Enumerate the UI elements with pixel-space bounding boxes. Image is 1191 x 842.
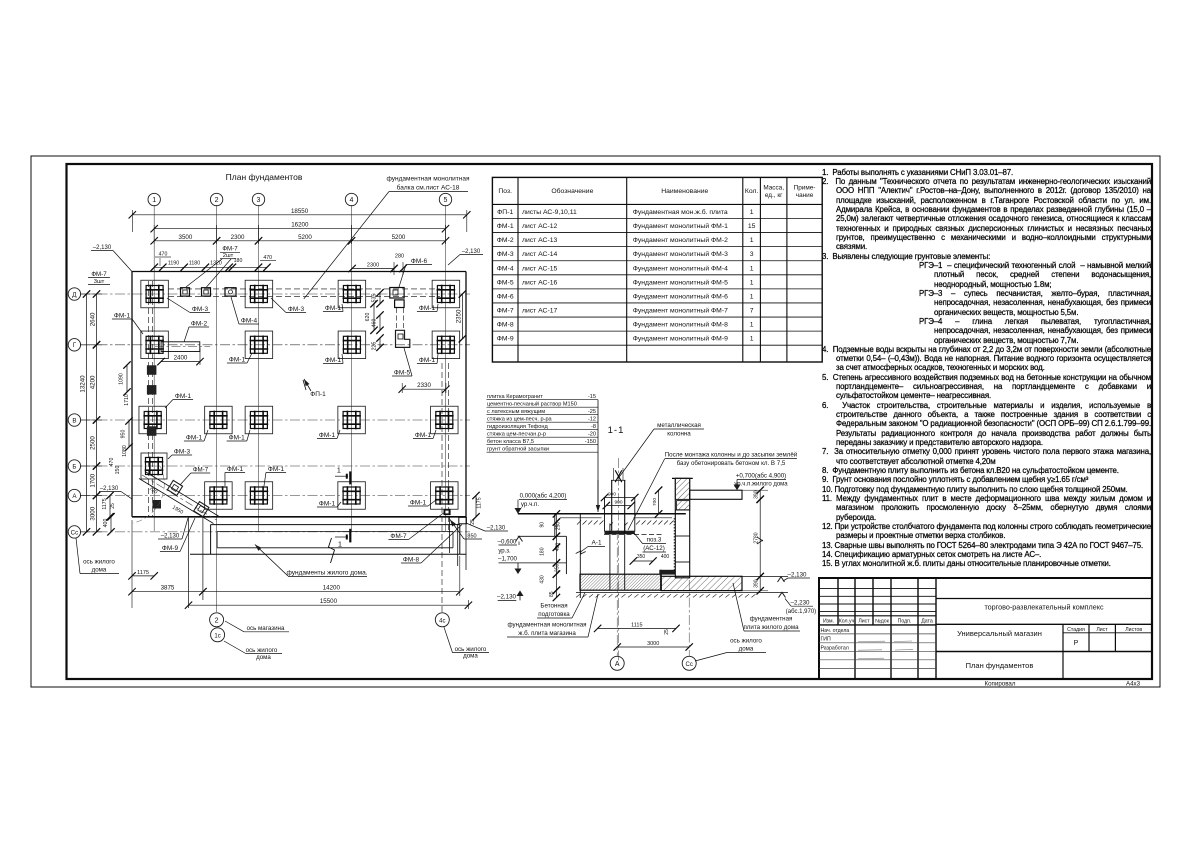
- svg-text:4: 4: [350, 197, 354, 204]
- svg-text:фундаментная: фундаментная: [750, 616, 793, 623]
- svg-text:25: 25: [110, 503, 116, 509]
- svg-text:Фундаментная мон.ж.б. плита: Фундаментная мон.ж.б. плита: [633, 208, 728, 216]
- svg-text:ФМ-3: ФМ-3: [288, 306, 305, 313]
- svg-text:дома: дома: [92, 567, 107, 574]
- svg-text:1175: 1175: [137, 570, 149, 576]
- svg-text:350: 350: [637, 554, 646, 560]
- svg-text:Б: Б: [72, 463, 76, 470]
- svg-text:ед., кг: ед., кг: [765, 192, 783, 199]
- svg-text:Стадия: Стадия: [1067, 627, 1085, 633]
- svg-text:2шт: 2шт: [223, 253, 234, 259]
- svg-text:Д: Д: [72, 291, 77, 298]
- svg-text:1115: 1115: [631, 622, 642, 628]
- svg-text:ФМ-1: ФМ-1: [325, 357, 342, 364]
- svg-text:Разработал: Разработал: [821, 645, 849, 651]
- svg-text:Подп.: Подп.: [898, 618, 912, 624]
- svg-text:ФМ-1: ФМ-1: [415, 432, 432, 439]
- svg-text:390: 390: [754, 579, 760, 588]
- svg-text:620: 620: [365, 313, 371, 322]
- svg-text:А-1: А-1: [591, 540, 602, 547]
- svg-text:ФМ-1: ФМ-1: [227, 466, 244, 473]
- svg-text:225: 225: [372, 342, 378, 351]
- svg-text:460: 460: [372, 319, 378, 328]
- svg-text:стяжка цем-песчан.р-р: стяжка цем-песчан.р-р: [487, 432, 546, 438]
- svg-text:900: 900: [614, 499, 622, 505]
- svg-text:колонна: колонна: [667, 431, 691, 438]
- svg-text:–2,130: –2,130: [497, 593, 516, 600]
- svg-text:лист АС-13: лист АС-13: [522, 237, 557, 244]
- svg-text:(АС-12): (АС-12): [643, 545, 665, 552]
- svg-text:ФМ-9: ФМ-9: [162, 545, 179, 552]
- svg-text:280: 280: [395, 254, 404, 260]
- svg-text:Бетонная: Бетонная: [540, 603, 567, 610]
- svg-text:3000: 3000: [647, 641, 659, 647]
- svg-text:Нач. отдела: Нач. отдела: [821, 628, 850, 634]
- svg-text:2400: 2400: [174, 355, 188, 362]
- svg-text:250: 250: [556, 522, 562, 531]
- svg-text:ФМ-2: ФМ-2: [191, 321, 208, 328]
- svg-text:ФМ-9: ФМ-9: [497, 336, 514, 343]
- svg-text:дома: дома: [256, 654, 271, 661]
- svg-text:Фундамент монолитный ФМ-3: Фундамент монолитный ФМ-3: [633, 250, 728, 258]
- svg-text:Фундамент монолитный ФМ-1: Фундамент монолитный ФМ-1: [633, 222, 728, 230]
- svg-text:ФМ-5: ФМ-5: [497, 279, 514, 286]
- svg-text:1: 1: [152, 197, 156, 204]
- svg-text:гидроизоляция Тефонд: гидроизоляция Тефонд: [487, 424, 548, 430]
- svg-text:грунт обратной засыпки: грунт обратной засыпки: [487, 446, 549, 453]
- svg-text:900: 900: [608, 491, 616, 497]
- svg-text:лист АС-14: лист АС-14: [522, 251, 557, 258]
- svg-text:Изм.: Изм.: [823, 618, 834, 624]
- svg-text:–2,130: –2,130: [462, 249, 481, 255]
- svg-text:ФМ-1: ФМ-1: [114, 313, 131, 320]
- svg-text:ФМ-3: ФМ-3: [497, 251, 514, 258]
- svg-text:чание: чание: [796, 192, 814, 199]
- svg-text:ФМ-1: ФМ-1: [175, 393, 192, 400]
- svg-text:15: 15: [748, 223, 756, 230]
- svg-text:90: 90: [540, 522, 546, 528]
- svg-text:Лист: Лист: [1096, 627, 1108, 633]
- svg-text:Фундамент монолитный ФМ-4: Фундамент монолитный ФМ-4: [633, 264, 728, 272]
- svg-text:850: 850: [467, 533, 476, 539]
- svg-text:180: 180: [540, 547, 546, 556]
- svg-text:плита жилого дома: плита жилого дома: [743, 624, 799, 631]
- svg-text:2350: 2350: [455, 309, 462, 323]
- svg-text:14200: 14200: [323, 585, 341, 592]
- svg-text:Кол.: Кол.: [745, 188, 759, 195]
- svg-text:Лист: Лист: [858, 618, 870, 624]
- svg-text:балка см.лист АС-18: балка см.лист АС-18: [397, 184, 460, 192]
- svg-text:1175: 1175: [477, 497, 483, 508]
- svg-text:ФМ-1: ФМ-1: [419, 357, 436, 364]
- svg-text:Дата: Дата: [921, 618, 933, 624]
- svg-text:18550: 18550: [291, 208, 309, 215]
- svg-text:Приме-: Приме-: [794, 185, 816, 192]
- svg-text:с латексным вяжущим: с латексным вяжущим: [487, 409, 545, 415]
- svg-text:торгово-развлекательный компле: торгово-развлекательный комплекс: [984, 603, 1104, 612]
- svg-text:ФМ-8: ФМ-8: [497, 322, 514, 329]
- svg-text:План фундаментов: План фундаментов: [966, 661, 1034, 670]
- svg-text:-25: -25: [588, 409, 596, 415]
- svg-text:1175: 1175: [102, 498, 108, 509]
- svg-text:ур.ч.п.жилого дома: ур.ч.п.жилого дома: [734, 482, 788, 488]
- svg-text:2300: 2300: [231, 234, 245, 241]
- svg-text:3: 3: [257, 197, 261, 204]
- svg-text:1: 1: [750, 322, 754, 329]
- svg-text:Сс: Сс: [686, 662, 693, 668]
- svg-text:5: 5: [444, 197, 448, 204]
- svg-text:лист АС-12: лист АС-12: [522, 223, 557, 230]
- svg-text:подготовка: подготовка: [538, 611, 570, 618]
- svg-text:Листов: Листов: [1125, 627, 1142, 633]
- svg-text:ФМ-1: ФМ-1: [497, 223, 514, 230]
- svg-text:1710: 1710: [124, 394, 130, 406]
- svg-text:ФМ-1: ФМ-1: [229, 357, 246, 364]
- svg-text:бетон класса В7,5: бетон класса В7,5: [487, 439, 534, 445]
- svg-text:7: 7: [750, 308, 754, 315]
- svg-text:ур.з.: ур.з.: [498, 549, 511, 555]
- svg-text:25: 25: [470, 519, 476, 525]
- svg-text:720: 720: [148, 486, 159, 496]
- svg-text:(абс.1,970): (абс.1,970): [786, 609, 816, 615]
- svg-text:–2,130: –2,130: [100, 486, 119, 492]
- svg-text:ФМ-7: ФМ-7: [91, 271, 107, 278]
- svg-text:Кол.уч: Кол.уч: [839, 618, 855, 624]
- svg-text:ФМ-7: ФМ-7: [193, 467, 209, 474]
- svg-text:ФМ-1: ФМ-1: [325, 305, 342, 312]
- svg-text:-150: -150: [585, 439, 596, 445]
- svg-text:1: 1: [750, 279, 754, 286]
- svg-text:1: 1: [337, 466, 341, 475]
- svg-text:Копировал: Копировал: [984, 681, 1015, 688]
- svg-text:дома: дома: [463, 653, 478, 660]
- svg-text:470: 470: [263, 255, 272, 261]
- svg-text:3000: 3000: [90, 506, 97, 520]
- svg-text:15500: 15500: [320, 598, 338, 605]
- svg-text:1: 1: [750, 336, 754, 343]
- svg-text:1190: 1190: [168, 260, 179, 266]
- svg-text:16200: 16200: [291, 222, 309, 229]
- svg-text:ФМ-4: ФМ-4: [497, 265, 514, 272]
- svg-text:Р: Р: [1074, 640, 1079, 647]
- svg-text:цементно-песчаный раствор М150: цементно-песчаный раствор М150: [487, 401, 577, 408]
- svg-text:2640: 2640: [90, 312, 97, 326]
- svg-text:лист АС-15: лист АС-15: [522, 265, 557, 272]
- svg-text:950: 950: [121, 430, 127, 439]
- svg-text:А: А: [615, 661, 620, 668]
- svg-text:ФМ-3: ФМ-3: [192, 306, 209, 313]
- svg-text:ось жилого: ось жилого: [730, 638, 762, 645]
- svg-text:1: 1: [750, 237, 754, 244]
- svg-text:1: 1: [750, 209, 754, 216]
- svg-text:–2,130: –2,130: [788, 571, 807, 578]
- svg-text:ФМ-1: ФМ-1: [419, 305, 436, 312]
- svg-text:Сс: Сс: [71, 529, 79, 536]
- svg-text:3500: 3500: [179, 234, 193, 241]
- svg-text:Обозначение: Обозначение: [551, 187, 593, 195]
- svg-text:ГИП: ГИП: [821, 637, 832, 643]
- svg-text:ФП-1: ФП-1: [497, 209, 513, 216]
- svg-text:1700: 1700: [90, 473, 97, 487]
- svg-text:1с: 1с: [214, 633, 220, 639]
- svg-text:85: 85: [549, 591, 555, 597]
- svg-text:Фундамент монолитный ФМ-8: Фундамент монолитный ФМ-8: [633, 321, 728, 329]
- svg-text:ФМ-1: ФМ-1: [268, 466, 285, 473]
- svg-text:А: А: [72, 493, 77, 500]
- svg-text:ФМ-7: ФМ-7: [390, 533, 407, 540]
- svg-text:–2,130: –2,130: [93, 245, 112, 251]
- svg-text:В: В: [72, 417, 76, 424]
- svg-text:ФМ-1: ФМ-1: [229, 435, 246, 442]
- svg-text:План фундаментов: План фундаментов: [226, 172, 303, 182]
- svg-text:А4х3: А4х3: [1126, 681, 1141, 688]
- svg-text:ФМ-8: ФМ-8: [403, 557, 420, 564]
- svg-text:фундаменты жилого дома.: фундаменты жилого дома.: [286, 570, 367, 577]
- svg-text:Поз.: Поз.: [498, 188, 512, 195]
- svg-text:470: 470: [159, 252, 168, 258]
- svg-text:базу обетонировать бетоном кл.: базу обетонировать бетоном кл. В 7,5: [677, 460, 786, 467]
- svg-text:2: 2: [215, 618, 219, 625]
- svg-text:1180: 1180: [189, 260, 200, 266]
- svg-text:Фундамент монолитный ФМ-7: Фундамент монолитный ФМ-7: [633, 307, 728, 315]
- svg-text:1: 1: [750, 265, 754, 272]
- svg-text:листы АС-9,10,11: листы АС-9,10,11: [522, 209, 577, 216]
- svg-text:-20: -20: [588, 432, 596, 438]
- svg-text:ФМ-2: ФМ-2: [497, 237, 514, 244]
- svg-text:ФМ-1: ФМ-1: [186, 435, 203, 442]
- svg-text:-12: -12: [588, 417, 596, 423]
- svg-text:+0,700(абс 4,900): +0,700(абс 4,900): [736, 473, 786, 480]
- svg-text:Фундамент монолитный ФМ-2: Фундамент монолитный ФМ-2: [633, 236, 728, 244]
- svg-text:фундаментная монолитная: фундаментная монолитная: [508, 622, 587, 629]
- svg-text:25: 25: [664, 629, 670, 635]
- svg-text:ФМ-1: ФМ-1: [410, 500, 427, 507]
- svg-text:поз.3: поз.3: [647, 537, 662, 544]
- svg-text:–2,130: –2,130: [487, 526, 506, 532]
- svg-text:лист АС-16: лист АС-16: [522, 279, 557, 286]
- svg-text:ФМ-5: ФМ-5: [394, 370, 411, 377]
- svg-text:Масса,: Масса,: [763, 185, 784, 192]
- svg-text:плитка Керамогранит: плитка Керамогранит: [487, 394, 543, 400]
- svg-text:2300: 2300: [367, 263, 379, 269]
- svg-text:-15: -15: [588, 394, 596, 400]
- svg-text:430: 430: [540, 575, 546, 584]
- svg-text:150: 150: [115, 466, 121, 475]
- svg-text:1: 1: [750, 293, 754, 300]
- svg-text:После монтажа колонны и до зас: После монтажа колонны и до засыпки землё…: [665, 452, 798, 459]
- svg-text:–0,600: –0,600: [498, 538, 517, 545]
- svg-text:металлическая: металлическая: [657, 422, 701, 429]
- svg-text:ось магазина: ось магазина: [247, 625, 285, 632]
- svg-text:5200: 5200: [392, 234, 406, 241]
- svg-text:ФМ-1: ФМ-1: [319, 432, 336, 439]
- svg-text:ФМ-6: ФМ-6: [411, 258, 428, 265]
- svg-text:4с: 4с: [439, 619, 445, 625]
- svg-text:Наименование: Наименование: [661, 188, 708, 195]
- svg-text:470: 470: [109, 458, 115, 467]
- svg-text:Универсальный магазин: Универсальный магазин: [957, 629, 1042, 638]
- svg-text:ФМ-1: ФМ-1: [319, 501, 336, 508]
- svg-text:Фундамент монолитный ФМ-6: Фундамент монолитный ФМ-6: [633, 292, 728, 300]
- svg-text:5200: 5200: [298, 234, 312, 241]
- svg-text:ФМ-6: ФМ-6: [497, 293, 514, 300]
- svg-text:ур.ч.п.: ур.ч.п.: [521, 501, 539, 508]
- svg-text:2330: 2330: [417, 382, 431, 389]
- svg-text:3: 3: [750, 251, 754, 258]
- svg-text:350: 350: [555, 564, 561, 573]
- svg-text:ФМ-7: ФМ-7: [497, 308, 514, 315]
- svg-text:2: 2: [215, 197, 219, 204]
- svg-text:Фундамент монолитный ФМ-9: Фундамент монолитный ФМ-9: [633, 335, 728, 343]
- svg-text:700: 700: [652, 498, 658, 506]
- svg-text:ось жилого: ось жилого: [83, 559, 115, 566]
- svg-text:ФМ-4: ФМ-4: [241, 318, 258, 325]
- svg-text:Г: Г: [73, 342, 77, 349]
- svg-text:3875: 3875: [161, 585, 175, 592]
- svg-text:1-1: 1-1: [608, 425, 625, 436]
- svg-text:1: 1: [338, 540, 342, 549]
- svg-text:2500: 2500: [90, 436, 97, 450]
- svg-text:13240: 13240: [79, 375, 86, 393]
- svg-text:1080: 1080: [122, 445, 128, 457]
- svg-text:-8: -8: [591, 424, 596, 430]
- svg-text:Фундамент монолитный ФМ-5: Фундамент монолитный ФМ-5: [633, 278, 728, 286]
- svg-text:480: 480: [555, 543, 561, 552]
- svg-text:дома: дома: [739, 646, 754, 653]
- svg-text:400: 400: [661, 554, 670, 560]
- svg-text:0,000(абс 4,200): 0,000(абс 4,200): [520, 493, 567, 500]
- svg-text:ФП-1: ФП-1: [310, 391, 326, 398]
- svg-text:фундаментная монолитная: фундаментная монолитная: [387, 176, 470, 183]
- svg-text:–1,700: –1,700: [498, 556, 517, 563]
- svg-text:1950: 1950: [171, 505, 184, 516]
- svg-text:390: 390: [754, 490, 760, 499]
- svg-text:ФМ-3: ФМ-3: [174, 449, 191, 456]
- svg-text:1090: 1090: [119, 373, 125, 385]
- svg-text:лист АС-17: лист АС-17: [522, 308, 557, 315]
- svg-text:ФМ-7: ФМ-7: [222, 246, 238, 253]
- svg-text:4200: 4200: [90, 375, 97, 389]
- svg-text:ж.б. плита магазина: ж.б. плита магазина: [518, 630, 576, 637]
- svg-text:–2,130: –2,130: [161, 534, 180, 540]
- svg-text:№док: №док: [875, 618, 889, 624]
- svg-text:–2,230: –2,230: [791, 600, 810, 607]
- svg-text:стяжка из цем-песч. р-ра: стяжка из цем-песч. р-ра: [487, 417, 553, 423]
- svg-text:3шт: 3шт: [94, 279, 105, 285]
